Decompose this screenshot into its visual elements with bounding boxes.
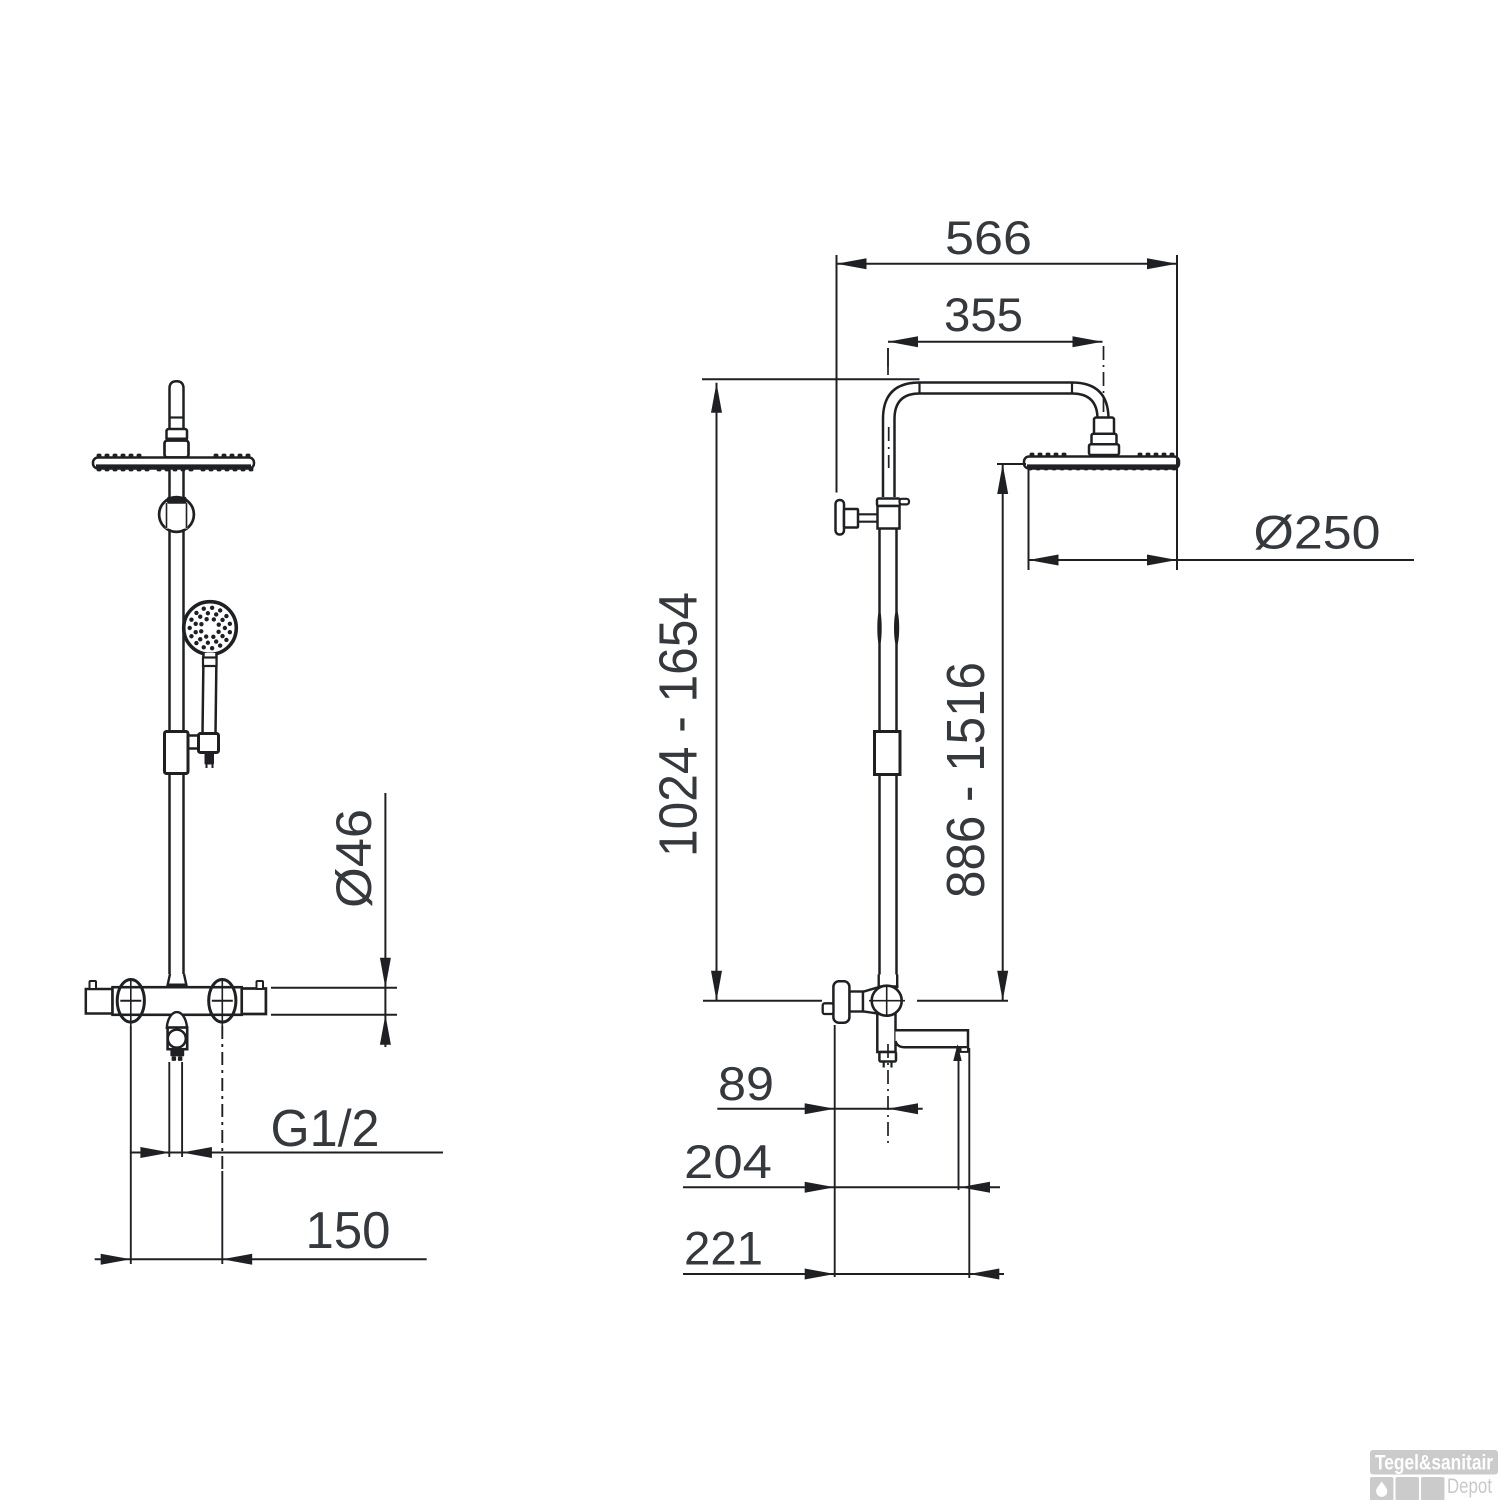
svg-text:566: 566 (945, 211, 1032, 264)
svg-text:204: 204 (684, 1135, 772, 1188)
svg-text:Tegel&sanitair: Tegel&sanitair (1375, 1452, 1493, 1475)
svg-text:1024 - 1654: 1024 - 1654 (649, 592, 709, 857)
svg-text:89: 89 (718, 1057, 774, 1110)
svg-text:Ø250: Ø250 (1254, 506, 1381, 559)
svg-text:355: 355 (944, 288, 1023, 341)
svg-text:886 - 1516: 886 - 1516 (936, 662, 996, 898)
svg-text:Depot: Depot (1447, 1474, 1492, 1498)
svg-text:Ø46: Ø46 (326, 809, 382, 908)
svg-text:G1/2: G1/2 (271, 1100, 380, 1158)
svg-text:221: 221 (684, 1222, 763, 1275)
svg-text:150: 150 (306, 1202, 391, 1260)
